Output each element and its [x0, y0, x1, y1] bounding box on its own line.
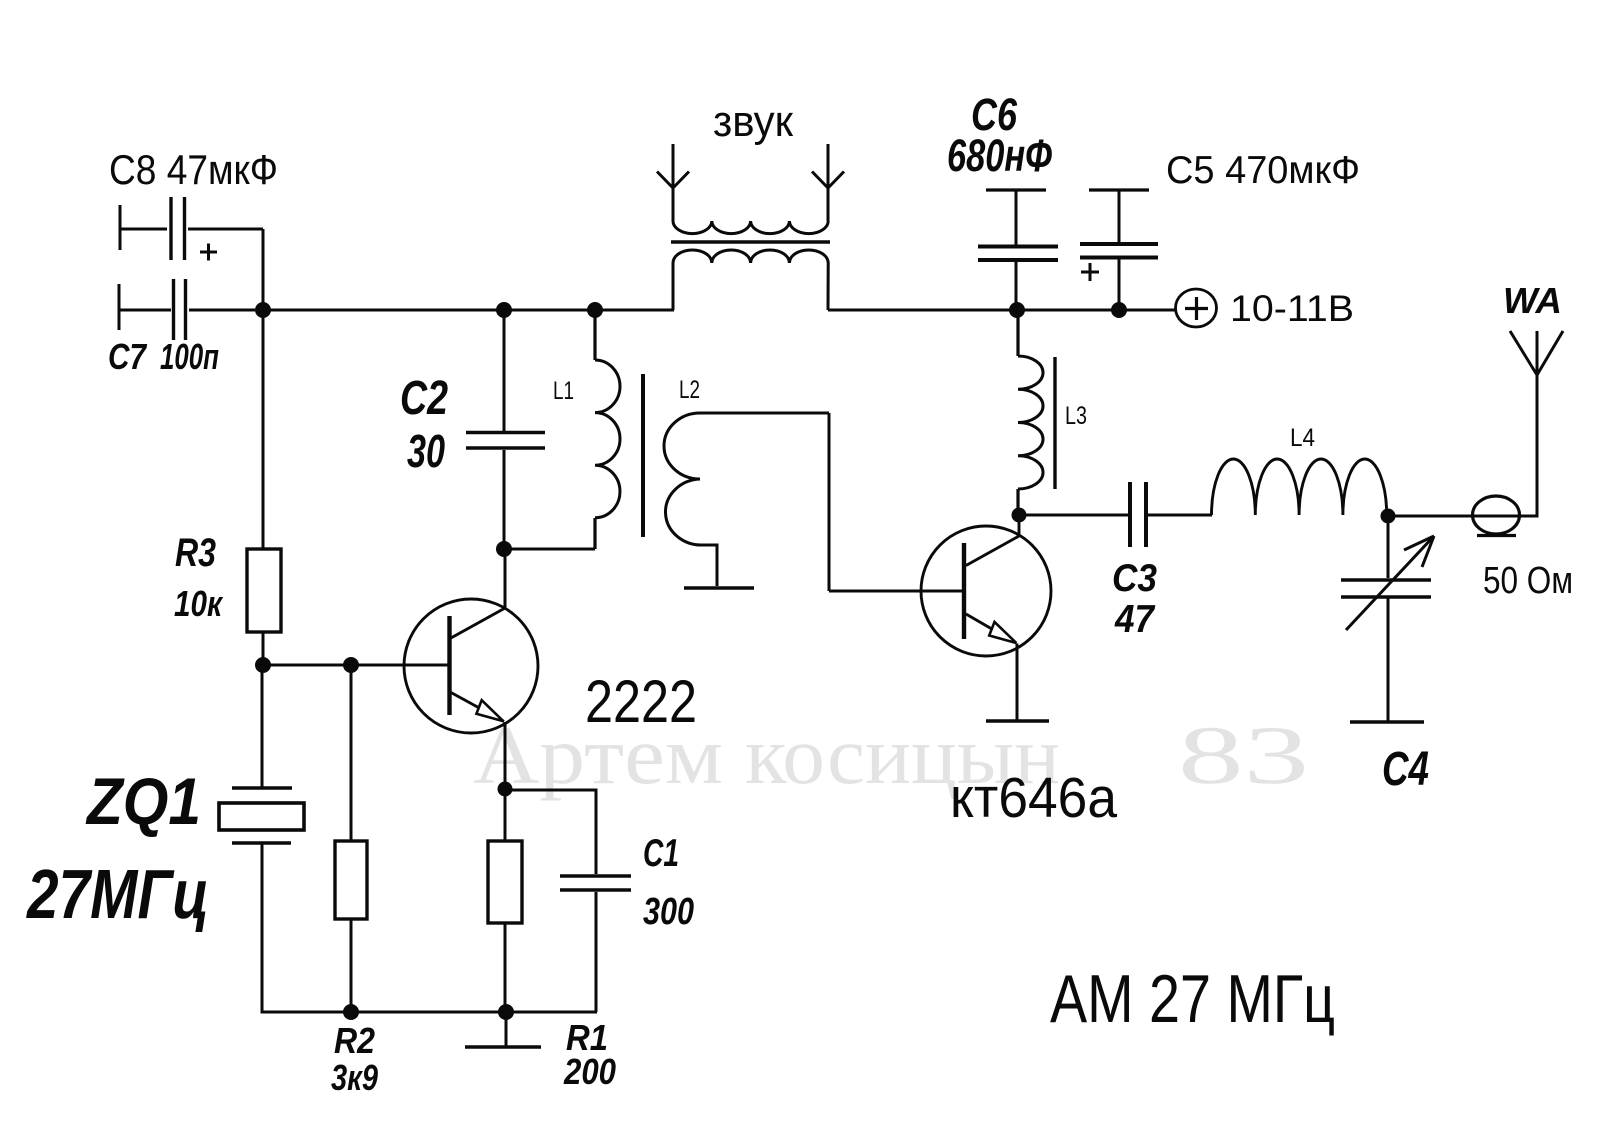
node H — [498, 782, 513, 797]
svg-text:10-11В: 10-11В — [1230, 288, 1354, 329]
node J — [343, 657, 359, 673]
capacitor C5 — [1080, 190, 1158, 310]
svg-text:кт646а: кт646а — [950, 766, 1117, 830]
svg-text:3к9: 3к9 — [331, 1057, 378, 1098]
wire bottom rail — [261, 1011, 598, 1014]
svg-text:300: 300 — [643, 891, 694, 933]
transistor Q2 — [921, 517, 1051, 656]
ground C4 — [1350, 720, 1424, 724]
wire R1 bottom — [504, 923, 507, 1012]
ground under node L — [465, 1012, 541, 1047]
wire node E to C3 — [1019, 514, 1128, 517]
wire R3 bottom — [262, 632, 265, 665]
input arrow left — [657, 144, 689, 221]
wire ZQ1 bottom — [261, 843, 264, 1012]
capacitor C1 — [560, 876, 631, 1012]
watermark Артем косицын 83 — [473, 709, 1309, 801]
node L — [498, 1004, 514, 1020]
wire H to C1 — [505, 790, 596, 874]
capacitor C6 — [978, 190, 1058, 310]
supply terminal — [1176, 289, 1217, 327]
capacitor C2 — [466, 310, 545, 549]
svg-text:100п: 100п — [160, 336, 219, 377]
node F — [1381, 509, 1396, 524]
wire rail transformer to supply — [828, 309, 1175, 312]
svg-text:200: 200 — [563, 1051, 616, 1092]
node C — [587, 302, 603, 318]
lamp 50 Ом — [1473, 496, 1520, 536]
wire Q2 base — [829, 590, 964, 593]
svg-text:47: 47 — [1114, 598, 1156, 641]
svg-text:С1: С1 — [643, 832, 679, 875]
transformer T2 primary coil — [673, 221, 828, 234]
transformer T2 core — [671, 240, 830, 243]
svg-text:С4: С4 — [1382, 743, 1429, 796]
wire H to R1 — [504, 789, 507, 841]
wire C8 to node A — [262, 229, 265, 310]
svg-text:С2: С2 — [400, 372, 448, 425]
variable capacitor C4 — [1341, 516, 1434, 721]
node B — [496, 302, 512, 318]
wire Q2 emitter down — [1016, 644, 1019, 721]
wire L1 bottom to node G — [504, 548, 595, 551]
inductor L2 — [664, 413, 829, 591]
inductor L1 — [595, 310, 620, 549]
capacitor C8 — [120, 197, 263, 261]
capacitor C7 — [119, 279, 255, 340]
svg-text:L1: L1 — [553, 377, 574, 405]
antenna WA — [1510, 331, 1563, 516]
svg-text:27МГц: 27МГц — [25, 855, 209, 933]
node E2 — [1111, 302, 1127, 318]
svg-text:С3: С3 — [1112, 557, 1157, 600]
svg-text:L3: L3 — [1065, 402, 1087, 430]
wire ZQ1 top — [261, 665, 264, 788]
wire C3 to L4 — [1148, 514, 1212, 517]
crystal ZQ1 — [219, 788, 304, 843]
svg-text:50 Ом: 50 Ом — [1483, 560, 1573, 602]
wire rail A to transformer — [263, 309, 674, 312]
svg-text:R2: R2 — [334, 1020, 375, 1061]
svg-text:L4: L4 — [1290, 424, 1315, 452]
transistor Q1 — [404, 599, 538, 733]
resistor R1 — [488, 841, 522, 923]
svg-text:2222: 2222 — [585, 668, 697, 735]
svg-text:R3: R3 — [175, 531, 216, 575]
ground Q2 emitter — [986, 719, 1049, 723]
node A — [255, 302, 271, 318]
svg-text:83: 83 — [1178, 709, 1309, 801]
transformer T1 core — [641, 374, 645, 537]
node D — [1009, 302, 1025, 318]
svg-text:С5 470мкФ: С5 470мкФ — [1166, 149, 1360, 192]
wire Q1 emitter down — [504, 722, 507, 789]
inductor L4 — [1212, 459, 1387, 515]
svg-text:ZQ1: ZQ1 — [85, 764, 201, 838]
transformer T2 secondary coil — [673, 250, 828, 310]
wire R2 top — [350, 665, 353, 841]
node K — [343, 1004, 359, 1020]
resistor R3 — [247, 549, 281, 632]
inductor L3 — [1018, 310, 1043, 515]
wire base net — [263, 664, 449, 667]
inductor L3 core — [1053, 357, 1056, 489]
wire R3 top — [262, 310, 265, 549]
capacitor C3 — [1130, 482, 1146, 547]
svg-text:С7: С7 — [108, 336, 148, 377]
wire node F to antenna mast — [1388, 515, 1539, 518]
node G — [496, 541, 512, 557]
node I — [255, 657, 271, 673]
svg-text:30: 30 — [407, 425, 445, 477]
node E — [1012, 508, 1027, 523]
svg-text:L2: L2 — [679, 376, 700, 404]
wire R2 bottom — [350, 919, 353, 1012]
svg-text:С8 47мкФ: С8 47мкФ — [109, 146, 278, 193]
svg-text:680нФ: 680нФ — [947, 130, 1052, 181]
wire node G to Q1 collector — [504, 549, 507, 608]
svg-text:10к: 10к — [174, 583, 223, 624]
input arrow right — [812, 144, 844, 221]
svg-text:WA: WA — [1503, 280, 1562, 321]
svg-text:звук: звук — [713, 97, 794, 146]
resistor R2 — [335, 841, 367, 919]
svg-text:АМ 27 МГц: АМ 27 МГц — [1050, 961, 1335, 1037]
